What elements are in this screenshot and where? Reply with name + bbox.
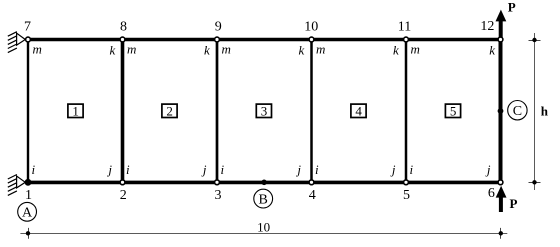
- svg-text:i: i: [315, 162, 319, 177]
- force P at node 12: [496, 0, 516, 40]
- svg-text:k: k: [110, 43, 116, 58]
- wire column 11-5: [405, 40, 408, 183]
- svg-text:m: m: [316, 42, 325, 57]
- element number box 4: [351, 103, 366, 118]
- svg-text:P: P: [510, 196, 518, 211]
- svg-text:4: 4: [309, 188, 316, 203]
- node B dot: [261, 180, 267, 186]
- wire column 12-6: [499, 40, 503, 183]
- svg-text:10: 10: [304, 20, 318, 35]
- svg-text:C: C: [513, 104, 522, 119]
- node 6: [498, 180, 503, 185]
- svg-text:3: 3: [261, 103, 268, 118]
- wire column 10-4: [310, 40, 313, 183]
- wire column 7-1: [27, 40, 29, 183]
- node 9: [215, 37, 220, 42]
- element 2 corner labels m k i j: [126, 42, 210, 178]
- element number box 3: [256, 103, 271, 118]
- svg-text:m: m: [222, 42, 231, 57]
- node 10: [309, 37, 314, 42]
- wire column 9-3: [216, 40, 219, 183]
- support pin at node 7: [8, 32, 26, 53]
- element 4 corner labels m k i j: [315, 42, 399, 178]
- element number box 2: [162, 103, 177, 118]
- element 5 corner labels m k i j: [410, 42, 496, 178]
- node C dot: [498, 108, 504, 114]
- node 4: [309, 180, 314, 185]
- svg-text:5: 5: [450, 103, 457, 118]
- node 7: [26, 37, 31, 42]
- svg-text:3: 3: [215, 188, 222, 203]
- svg-text:12: 12: [480, 19, 494, 34]
- node C circled label: [508, 101, 527, 120]
- element number box 5: [445, 103, 460, 118]
- svg-text:1: 1: [72, 103, 79, 118]
- node 3: [215, 180, 220, 185]
- element number box 1: [68, 103, 83, 118]
- svg-text:B: B: [259, 192, 268, 207]
- node 1: [25, 179, 32, 186]
- wire top chord 7-12: [26, 38, 502, 42]
- svg-text:9: 9: [215, 20, 222, 35]
- svg-text:i: i: [126, 162, 130, 177]
- svg-text:k: k: [299, 43, 305, 58]
- element 3 corner labels m k i j: [221, 42, 305, 178]
- node 12: [498, 37, 503, 42]
- svg-text:h: h: [541, 103, 549, 118]
- svg-text:5: 5: [403, 188, 410, 203]
- node 2: [120, 180, 125, 185]
- node A circled label: [18, 202, 37, 221]
- svg-text:11: 11: [398, 20, 411, 35]
- svg-text:2: 2: [120, 188, 127, 203]
- force P at node 6: [496, 186, 518, 212]
- svg-text:m: m: [411, 42, 420, 57]
- node 8: [120, 37, 125, 42]
- svg-text:i: i: [221, 162, 225, 177]
- svg-text:m: m: [33, 42, 42, 57]
- svg-text:10: 10: [257, 219, 270, 234]
- svg-text:1: 1: [25, 188, 32, 203]
- svg-text:P: P: [508, 0, 516, 15]
- node 5: [404, 180, 409, 185]
- node 11: [404, 37, 409, 42]
- node B circled label: [254, 189, 273, 208]
- svg-text:4: 4: [355, 103, 362, 118]
- svg-text:A: A: [22, 206, 33, 221]
- svg-text:k: k: [489, 43, 495, 58]
- wire bottom chord 1-6: [26, 181, 502, 185]
- svg-text:i: i: [410, 162, 414, 177]
- svg-text:i: i: [32, 162, 36, 177]
- dimension line h (vertical): [529, 33, 549, 190]
- element 1 corner labels m k i j: [32, 42, 116, 178]
- svg-text:6: 6: [488, 186, 495, 201]
- dimension line 10 (horizontal): [20, 219, 507, 238]
- svg-text:k: k: [393, 43, 399, 58]
- support pin at node 1: [8, 175, 26, 196]
- svg-text:7: 7: [24, 20, 31, 35]
- svg-text:2: 2: [166, 103, 173, 118]
- svg-text:k: k: [204, 43, 210, 58]
- wire column 8-2: [121, 40, 125, 183]
- svg-text:8: 8: [120, 20, 127, 35]
- svg-text:m: m: [127, 42, 136, 57]
